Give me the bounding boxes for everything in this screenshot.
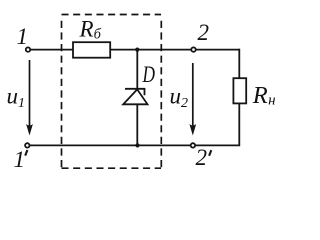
svg-text:D: D	[142, 62, 156, 87]
wire: diode branch vertical	[136, 50, 138, 146]
prime mark of 1'	[25, 150, 27, 156]
wire: right branch upper (corner to load resistor)	[238, 49, 240, 78]
svg-text:2: 2	[198, 20, 210, 45]
svg-text:u2: u2	[170, 84, 189, 112]
svg-text:u1: u1	[7, 83, 26, 111]
junction dot top (node between Rb, D, terminal 2)	[135, 48, 139, 52]
terminal 2' circle	[191, 143, 195, 147]
dashed two-port box	[62, 15, 162, 169]
prime mark of 2'	[209, 150, 211, 156]
svg-text:Rн: Rн	[252, 82, 276, 109]
junction dot bottom (node between 1', D, 2')	[135, 143, 139, 147]
resistor Rn body	[233, 78, 246, 103]
svg-text:Rб: Rб	[79, 16, 102, 42]
resistor Rb body	[73, 42, 110, 58]
u2 voltage arrow	[189, 63, 196, 136]
svg-text:1: 1	[14, 147, 26, 172]
svg-text:2: 2	[196, 145, 208, 170]
wire: top rail from terminal 1 to resistor	[28, 49, 73, 51]
terminal 1' circle	[25, 143, 29, 147]
zener diode D: cathode bar with bent end	[125, 89, 145, 95]
wire: top rail terminal 2 to right corner	[194, 49, 240, 51]
wire: bottom rail from terminal 1' to terminal 2'	[27, 144, 193, 146]
wire: top rail from resistor to terminal 2	[111, 49, 194, 51]
wire: right branch lower (load resistor to bottom corner)	[193, 104, 239, 145]
svg-text:1: 1	[17, 24, 29, 49]
terminal 1 circle	[26, 47, 30, 51]
zener diode D: triangle	[123, 89, 147, 104]
terminal 2 circle	[191, 47, 195, 51]
u1 voltage arrow	[26, 60, 33, 136]
